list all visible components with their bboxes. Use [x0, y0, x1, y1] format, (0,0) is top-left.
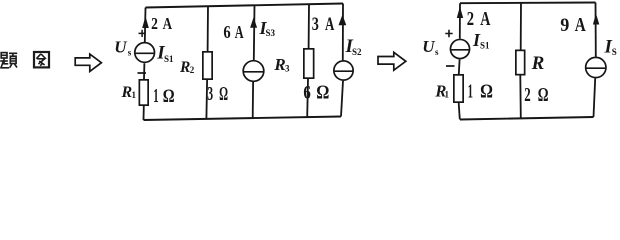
current source IS1 — [450, 39, 469, 58]
wire: top rail — [460, 2, 596, 5]
wire: right edge upper — [595, 3, 597, 57]
current source IS1 — [135, 43, 155, 63]
svg-text:S1: S1 — [480, 41, 490, 51]
svg-text:S2: S2 — [352, 47, 362, 57]
svg-text:A: A — [480, 8, 491, 30]
wire: left branch mid — [458, 59, 461, 74]
label 1 ohm — [468, 81, 473, 102]
wire: right edge upper — [342, 4, 344, 61]
svg-text:A: A — [235, 23, 244, 43]
wire: left branch lower — [143, 106, 145, 120]
wire: left branch between source and R1 — [143, 63, 145, 79]
resistor R1 — [139, 80, 148, 105]
svg-text:1: 1 — [132, 90, 137, 100]
svg-text:s: s — [435, 47, 439, 57]
wire: right edge lower — [341, 81, 343, 117]
wire: branch R2 upper — [207, 6, 209, 51]
svg-text:s: s — [128, 47, 132, 57]
svg-text:A: A — [575, 13, 586, 35]
svg-text:S: S — [612, 47, 617, 57]
current arrow 2A — [457, 7, 463, 19]
svg-text:3: 3 — [312, 13, 319, 34]
svg-text:U: U — [114, 37, 127, 56]
svg-text:9: 9 — [560, 14, 569, 36]
minus sign — [446, 65, 455, 67]
label 2 ohm — [524, 83, 530, 105]
svg-text:1: 1 — [153, 86, 158, 107]
svg-text:Ω: Ω — [480, 80, 493, 102]
current source IS2 — [334, 61, 353, 80]
svg-text:S3: S3 — [266, 28, 276, 38]
label 1 ohm — [153, 86, 158, 107]
svg-text:Ω: Ω — [316, 81, 329, 103]
label 3 ohm — [207, 84, 213, 105]
wire: right edge lower — [594, 79, 596, 118]
svg-text:A: A — [325, 15, 335, 35]
label 2 A — [151, 15, 158, 34]
wire: bottom rail — [460, 117, 594, 120]
svg-text:A: A — [163, 15, 172, 34]
svg-text:1: 1 — [468, 81, 473, 102]
label 3 A — [312, 13, 319, 34]
plus sign — [139, 30, 146, 37]
resistor R1 — [454, 75, 463, 102]
current arrow IS3 — [250, 17, 257, 27]
wire: top rail — [146, 4, 344, 8]
label 6 ohm — [303, 81, 311, 102]
current arrow 3A — [339, 15, 347, 26]
current arrow 9A — [593, 14, 599, 25]
wire: bottom rail — [144, 117, 342, 121]
wire: branch IS3 lower — [252, 82, 254, 118]
svg-text:Ω: Ω — [219, 84, 228, 105]
resistor R — [516, 50, 525, 74]
svg-text:Ω: Ω — [163, 85, 175, 106]
svg-text:S1: S1 — [164, 54, 174, 64]
current source IS3 — [243, 61, 264, 82]
resistor R2 — [203, 52, 212, 79]
minus sign — [138, 72, 147, 74]
big hollow arrow 2 — [378, 52, 406, 70]
svg-text:R: R — [531, 53, 545, 74]
caption glyph 图 — [34, 52, 49, 67]
svg-text:2: 2 — [151, 15, 158, 34]
wire: branch R upper — [520, 3, 522, 50]
wire: left branch upper — [459, 3, 461, 38]
wire: left branch lower — [459, 103, 460, 120]
resistor R3 — [304, 49, 314, 78]
wire: branch R2 lower — [205, 80, 208, 119]
svg-text:2: 2 — [190, 65, 195, 75]
plus sign — [445, 30, 452, 37]
svg-text:6: 6 — [223, 22, 230, 43]
svg-text:R: R — [273, 55, 285, 74]
current arrow 2A — [142, 16, 149, 28]
svg-text:R: R — [179, 59, 190, 76]
current source IS — [586, 57, 606, 77]
svg-text:2: 2 — [467, 8, 474, 29]
label 2 A — [467, 8, 474, 29]
wire: branch R lower — [519, 76, 522, 119]
caption glyph 题 — [0, 53, 17, 68]
svg-text:3: 3 — [285, 64, 290, 74]
wire: branch R3 upper — [308, 4, 310, 48]
svg-text:2: 2 — [524, 83, 530, 105]
svg-text:U: U — [422, 37, 435, 56]
big hollow arrow 1 — [75, 54, 101, 71]
svg-text:1: 1 — [445, 89, 450, 99]
svg-text:Ω: Ω — [538, 83, 549, 105]
label 9 A — [560, 14, 569, 36]
wire: branch IS3 upper — [253, 5, 256, 60]
svg-text:3: 3 — [207, 84, 213, 105]
label 6 A — [223, 22, 230, 43]
wire: branch R3 lower — [306, 79, 309, 117]
wire: left branch upper — [144, 8, 147, 43]
